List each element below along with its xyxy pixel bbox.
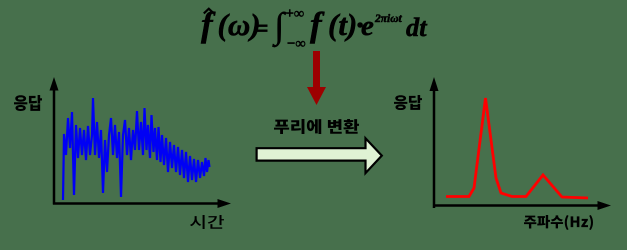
left x-axis arrowhead xyxy=(218,199,232,208)
right plot x-axis xyxy=(433,204,598,207)
svg-text:(ω): (ω) xyxy=(218,7,261,42)
svg-text:e: e xyxy=(361,10,374,42)
svg-text:−∞: −∞ xyxy=(287,36,306,52)
left plot x-axis xyxy=(53,202,218,205)
red down arrow xyxy=(307,51,326,105)
f(t) xyxy=(310,5,357,44)
left y-axis arrowhead xyxy=(50,77,59,91)
formula f-hat(omega) xyxy=(201,5,268,44)
red spectrum curve xyxy=(446,98,588,198)
svg-text:(t): (t) xyxy=(328,7,357,42)
right x-axis arrowhead xyxy=(598,201,612,210)
label jupasu(Hz) xyxy=(524,215,593,230)
label eungdap left xyxy=(14,95,42,111)
green block arrow xyxy=(257,138,382,173)
dot e exponent xyxy=(356,7,403,42)
label sigan xyxy=(190,215,224,229)
svg-text:dt: dt xyxy=(406,12,428,42)
blue signal curve xyxy=(63,98,210,200)
label eungdap right xyxy=(394,95,422,110)
left plot y-axis xyxy=(53,88,56,205)
right y-axis arrowhead xyxy=(430,77,439,91)
right plot y-axis xyxy=(433,89,436,208)
svg-text:2πiωt: 2πiωt xyxy=(374,13,403,25)
label purie byeonhwan xyxy=(274,119,359,134)
svg-text:+∞: +∞ xyxy=(286,6,305,22)
